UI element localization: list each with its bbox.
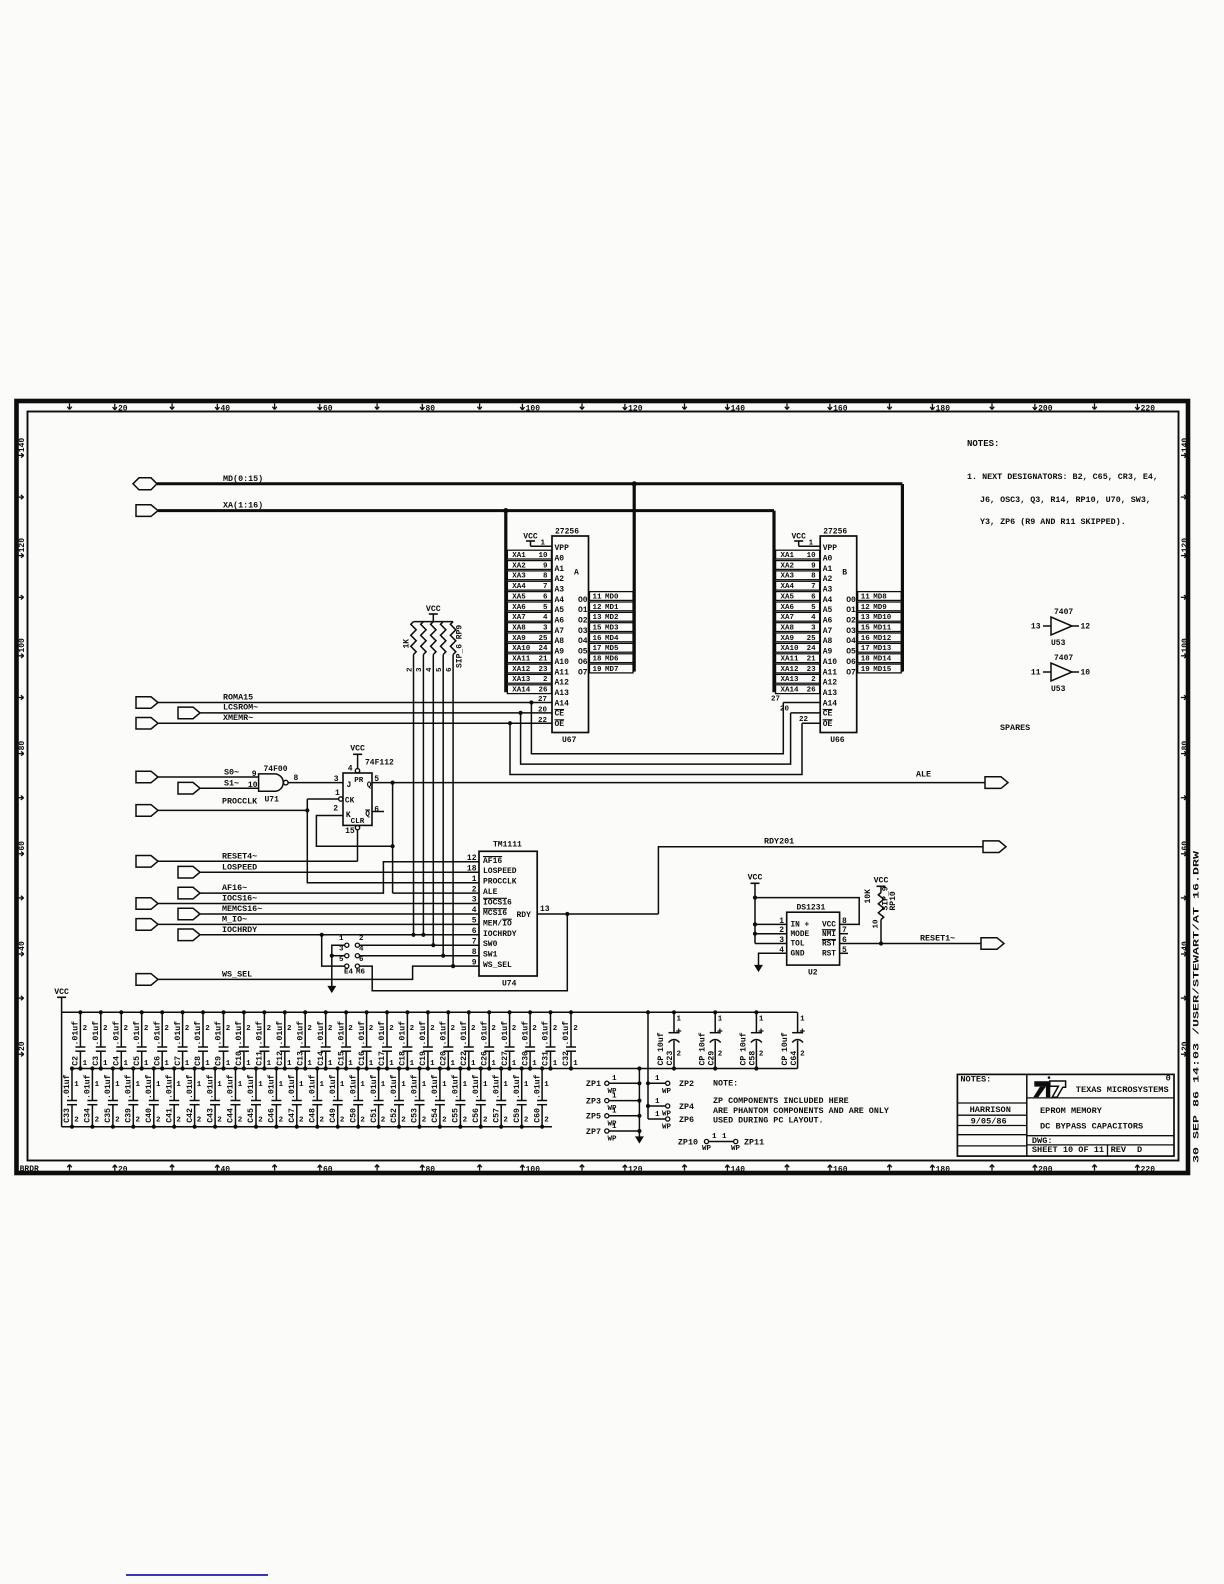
svg-text:6: 6 (472, 927, 477, 936)
svg-text:TEXAS MICROSYSTEMS: TEXAS MICROSYSTEMS (1076, 1085, 1169, 1095)
svg-text:A11: A11 (555, 668, 570, 677)
svg-text:13: 13 (593, 614, 603, 622)
svg-text:.01uf: .01uf (357, 1021, 367, 1046)
svg-text:O2: O2 (846, 617, 856, 626)
svg-text:60: 60 (1181, 841, 1190, 851)
svg-text:ZP11: ZP11 (744, 1137, 764, 1147)
svg-text:.01uf: .01uf (348, 1074, 358, 1099)
svg-text:MD(0:15): MD(0:15) (223, 474, 263, 484)
svg-text:Y3, ZP6 (R9 AND R11 SKIPPED).: Y3, ZP6 (R9 AND R11 SKIPPED). (980, 517, 1126, 527)
svg-text:VCC: VCC (748, 874, 763, 883)
svg-text:XA5: XA5 (512, 593, 526, 601)
svg-text:IOCS16~: IOCS16~ (222, 894, 257, 904)
svg-text:.01uf: .01uf (287, 1074, 297, 1099)
svg-text:1: 1 (483, 1081, 488, 1089)
svg-text:80: 80 (18, 741, 27, 751)
svg-text:1: 1 (279, 1081, 284, 1089)
svg-text:USED DURING PC LAYOUT.: USED DURING PC LAYOUT. (713, 1116, 824, 1126)
svg-text:CP: CP (698, 1056, 707, 1066)
svg-text:.01uf: .01uf (328, 1074, 338, 1099)
svg-text:2: 2 (359, 935, 364, 943)
svg-text:ALE: ALE (483, 888, 498, 897)
svg-text:1: 1 (573, 1060, 578, 1068)
svg-text:MEMCS16~: MEMCS16~ (222, 904, 262, 914)
svg-text:5: 5 (543, 604, 548, 612)
svg-text:LOSPEED: LOSPEED (222, 862, 257, 872)
svg-text:80: 80 (1181, 741, 1190, 751)
svg-text:1: 1 (540, 540, 545, 548)
svg-text:7: 7 (543, 583, 548, 591)
svg-text:A8: A8 (823, 637, 833, 646)
svg-text:1: 1 (430, 1060, 435, 1068)
svg-text:C22: C22 (460, 1051, 469, 1066)
svg-text:13: 13 (540, 905, 550, 914)
svg-text:2: 2 (401, 1117, 406, 1125)
svg-text:.01uf: .01uf (520, 1021, 530, 1046)
svg-text:1: 1 (136, 1081, 141, 1089)
svg-text:1: 1 (124, 1060, 129, 1068)
svg-text:C64: C64 (790, 1051, 799, 1066)
svg-text:180: 180 (936, 1165, 951, 1174)
svg-text:2: 2 (503, 1117, 508, 1125)
svg-text:O1: O1 (846, 606, 856, 615)
svg-text:XA11: XA11 (512, 656, 531, 664)
svg-text:MD12: MD12 (873, 635, 892, 643)
svg-text:2: 2 (512, 1025, 517, 1033)
svg-text:ARE PHANTOM COMPONENTS AND ARE: ARE PHANTOM COMPONENTS AND ARE ONLY (713, 1106, 890, 1116)
svg-text:A3: A3 (555, 586, 565, 595)
svg-text:XA14: XA14 (512, 687, 531, 695)
svg-text:A12: A12 (555, 679, 570, 688)
svg-text:O7: O7 (846, 668, 856, 677)
svg-text:J: J (347, 781, 352, 790)
svg-text:9: 9 (472, 958, 477, 967)
svg-text:120: 120 (628, 1165, 643, 1174)
svg-text:1: 1 (335, 789, 340, 798)
svg-text:.01uf: .01uf (500, 1021, 510, 1046)
svg-text:1: 1 (197, 1081, 202, 1089)
svg-text:LOSPEED: LOSPEED (483, 867, 517, 876)
svg-text:4: 4 (472, 906, 477, 915)
svg-text:.01uf: .01uf (173, 1021, 183, 1046)
svg-text:1: 1 (369, 1060, 374, 1068)
svg-text:C57: C57 (492, 1108, 501, 1123)
svg-text:O5: O5 (578, 648, 588, 657)
svg-text:XA5: XA5 (781, 593, 795, 601)
svg-text:1: 1 (238, 1081, 243, 1089)
svg-text:WS_SEL: WS_SEL (483, 961, 512, 970)
svg-text:140: 140 (731, 1165, 746, 1174)
svg-text:.01uf: .01uf (103, 1074, 113, 1099)
svg-text:1: 1 (800, 1016, 805, 1024)
svg-text:4: 4 (348, 765, 353, 774)
svg-text:C19: C19 (419, 1051, 428, 1066)
svg-text:2: 2 (451, 1025, 456, 1033)
svg-text:1: 1 (74, 1081, 79, 1089)
svg-text:140: 140 (731, 404, 746, 413)
svg-text:A: A (574, 569, 579, 578)
svg-text:23: 23 (807, 666, 817, 674)
svg-text:1: 1 (463, 1081, 468, 1089)
svg-text:RDY: RDY (517, 911, 532, 920)
svg-text:.01uf: .01uf (205, 1074, 215, 1099)
svg-text:15: 15 (861, 625, 871, 633)
svg-text:OE: OE (555, 720, 565, 729)
svg-text:C42: C42 (186, 1108, 195, 1123)
svg-text:20: 20 (1181, 1041, 1190, 1051)
svg-text:RESET4~: RESET4~ (222, 852, 257, 862)
svg-text:6: 6 (811, 593, 816, 601)
svg-text:1: 1 (410, 1060, 415, 1068)
svg-text:U53: U53 (1051, 639, 1066, 648)
svg-text:12: 12 (467, 854, 477, 863)
svg-text:.01uf: .01uf (471, 1074, 481, 1099)
svg-text:A12: A12 (823, 679, 838, 688)
svg-text:2: 2 (279, 1117, 284, 1125)
svg-text:C3: C3 (92, 1056, 101, 1066)
svg-text:12: 12 (593, 604, 603, 612)
svg-text:22: 22 (799, 716, 809, 724)
svg-text:12: 12 (861, 604, 871, 612)
svg-text:180: 180 (936, 404, 951, 413)
svg-text:2: 2 (258, 1117, 263, 1125)
svg-text:.01uf: .01uf (152, 1021, 162, 1046)
svg-text:C18: C18 (399, 1051, 408, 1066)
svg-text:100: 100 (18, 638, 27, 653)
svg-text:C5: C5 (133, 1056, 142, 1066)
svg-text:13: 13 (861, 614, 871, 622)
svg-text:C35: C35 (104, 1108, 113, 1123)
svg-text:1: 1 (422, 1081, 427, 1089)
svg-text:.01uf: .01uf (226, 1074, 236, 1099)
svg-text:A13: A13 (555, 689, 570, 698)
svg-text:10uf: 10uf (656, 1032, 666, 1052)
svg-text:C15: C15 (337, 1051, 346, 1066)
svg-text:.01uf: .01uf (377, 1021, 387, 1046)
svg-text:NOTES:: NOTES: (967, 439, 999, 449)
svg-text:ALE: ALE (916, 770, 931, 780)
svg-text:C27: C27 (501, 1051, 510, 1066)
svg-text:25: 25 (807, 635, 817, 643)
svg-text:C17: C17 (378, 1051, 387, 1066)
svg-text:U71: U71 (265, 796, 280, 805)
svg-text:2: 2 (360, 1117, 365, 1125)
svg-text:U2: U2 (808, 969, 818, 978)
svg-text:1: 1 (246, 1060, 251, 1068)
svg-text:1: 1 (809, 540, 814, 548)
svg-text:1: 1 (307, 1060, 312, 1068)
svg-text:15: 15 (345, 827, 355, 836)
svg-text:2: 2 (759, 1051, 764, 1059)
svg-text:O3: O3 (578, 627, 588, 636)
svg-text:3: 3 (339, 945, 344, 953)
svg-text:.01uf: .01uf (185, 1074, 195, 1099)
svg-text:DC BYPASS CAPACITORS: DC BYPASS CAPACITORS (1040, 1122, 1143, 1132)
svg-text:C45: C45 (247, 1108, 256, 1123)
svg-text:2: 2 (544, 1117, 549, 1125)
svg-text:.01uf: .01uf (267, 1074, 277, 1099)
svg-text:3: 3 (811, 625, 816, 633)
svg-text:7: 7 (472, 937, 477, 946)
svg-text:HARRISON: HARRISON (970, 1105, 1011, 1115)
svg-text:U74: U74 (502, 980, 517, 989)
svg-text:XA6: XA6 (512, 604, 526, 612)
svg-text:WP: WP (662, 1088, 672, 1096)
svg-text:MD6: MD6 (605, 656, 619, 664)
svg-text:A0: A0 (823, 554, 833, 563)
svg-text:1: 1 (83, 1060, 88, 1068)
svg-text:3: 3 (543, 625, 548, 633)
svg-text:2: 2 (677, 1051, 682, 1059)
svg-text:C56: C56 (472, 1108, 481, 1123)
svg-text:18: 18 (593, 656, 603, 664)
svg-text:6: 6 (359, 956, 364, 964)
svg-text:.01uf: .01uf (491, 1074, 501, 1099)
svg-text:1: 1 (185, 1060, 190, 1068)
svg-text:2: 2 (197, 1117, 202, 1125)
svg-text:A10: A10 (823, 658, 838, 667)
svg-text:2: 2 (144, 1025, 149, 1033)
svg-text:C51: C51 (370, 1108, 379, 1123)
svg-text:WP: WP (731, 1145, 741, 1153)
svg-text:2: 2 (369, 1025, 374, 1033)
svg-text:C8: C8 (194, 1056, 203, 1066)
svg-text:.01uf: .01uf (246, 1074, 256, 1099)
svg-text:WP: WP (702, 1145, 712, 1153)
svg-text:VCC: VCC (822, 922, 836, 930)
svg-text:30 SEP 86 14:03 /USER/STEWART/: 30 SEP 86 14:03 /USER/STEWART/AT 16.DRW (1193, 851, 1202, 1163)
svg-text:27256: 27256 (823, 528, 847, 537)
svg-text:SIP_6 RP9: SIP_6 RP9 (456, 625, 465, 668)
svg-text:1K: 1K (403, 639, 412, 649)
svg-text:C60: C60 (533, 1108, 542, 1123)
svg-text:100: 100 (526, 1165, 541, 1174)
svg-text:.01uf: .01uf (451, 1074, 461, 1099)
svg-text:2: 2 (217, 1117, 222, 1125)
svg-text:2: 2 (83, 1025, 88, 1033)
svg-text:A2: A2 (555, 575, 565, 584)
svg-text:ZP2: ZP2 (679, 1079, 694, 1089)
svg-text:10K: 10K (864, 889, 873, 904)
svg-text:CP: CP (740, 1056, 749, 1066)
svg-text:C40: C40 (145, 1108, 154, 1123)
svg-text:1: 1 (503, 1081, 508, 1089)
svg-text:C41: C41 (165, 1108, 174, 1123)
svg-text:5: 5 (811, 604, 816, 612)
svg-text:1. NEXT DESIGNATORS: B2, C65,: 1. NEXT DESIGNATORS: B2, C65, CR3, E4, (967, 472, 1158, 482)
svg-text:ROMA15: ROMA15 (223, 692, 253, 702)
svg-text:RST: RST (822, 951, 836, 959)
svg-text:1: 1 (524, 1081, 529, 1089)
svg-text:A6: A6 (555, 617, 565, 626)
svg-text:A2: A2 (823, 575, 833, 584)
svg-text:1: 1 (299, 1081, 304, 1089)
svg-text:C50: C50 (349, 1108, 358, 1123)
svg-text:C6: C6 (153, 1056, 162, 1066)
svg-text:C59: C59 (513, 1108, 522, 1123)
svg-text:.01uf: .01uf (193, 1021, 203, 1046)
svg-text:2: 2 (246, 1025, 251, 1033)
svg-text:C13: C13 (296, 1051, 305, 1066)
svg-text:1: 1 (532, 1060, 537, 1068)
svg-text:.01uf: .01uf (83, 1074, 93, 1099)
svg-text:A9: A9 (555, 648, 565, 657)
svg-text:2: 2 (176, 1117, 181, 1125)
svg-text:XMEMR~: XMEMR~ (223, 713, 253, 723)
svg-text:1: 1 (712, 1133, 717, 1141)
svg-text:VPP: VPP (555, 544, 570, 553)
svg-text:XA8: XA8 (781, 625, 795, 633)
svg-text:5: 5 (472, 917, 477, 926)
svg-text:.01uf: .01uf (144, 1074, 154, 1099)
svg-text:1: 1 (156, 1081, 161, 1089)
svg-text:8: 8 (543, 573, 548, 581)
svg-text:2: 2 (524, 1117, 529, 1125)
svg-text:60: 60 (18, 841, 27, 851)
svg-text:MD7: MD7 (605, 666, 619, 674)
svg-text:C47: C47 (288, 1108, 297, 1123)
svg-text:A0: A0 (555, 554, 565, 563)
svg-text:C10: C10 (235, 1051, 244, 1066)
svg-text:1: 1 (320, 1081, 325, 1089)
svg-text:1: 1 (258, 1081, 263, 1089)
svg-text:9: 9 (811, 562, 816, 570)
svg-text:11: 11 (1031, 669, 1041, 678)
svg-text:120: 120 (1181, 538, 1190, 553)
svg-text:1: 1 (287, 1060, 292, 1068)
svg-text:XA10: XA10 (512, 645, 531, 653)
svg-text:MD1: MD1 (605, 604, 619, 612)
svg-text:2: 2 (299, 1117, 304, 1125)
svg-text:2: 2 (348, 1025, 353, 1033)
svg-text:6: 6 (543, 593, 548, 601)
svg-text:CK: CK (345, 798, 355, 806)
svg-text:.01uf: .01uf (214, 1021, 224, 1046)
svg-text:2: 2 (205, 1025, 210, 1033)
svg-text:2: 2 (74, 1117, 79, 1125)
svg-text:B: B (842, 569, 847, 578)
svg-text:M_IO~: M_IO~ (222, 915, 247, 925)
svg-text:Q: Q (365, 811, 370, 819)
svg-text:MEM/IO: MEM/IO (483, 919, 512, 928)
svg-text:A11: A11 (823, 668, 838, 677)
svg-text:S1~: S1~ (224, 779, 239, 789)
svg-text:RDY201: RDY201 (764, 836, 794, 846)
svg-text:4: 4 (543, 614, 548, 622)
svg-text:1: 1 (339, 935, 344, 943)
svg-text:U53: U53 (1051, 685, 1066, 694)
svg-text:1: 1 (226, 1060, 231, 1068)
svg-text:7407: 7407 (1054, 608, 1073, 617)
svg-text:40: 40 (18, 941, 27, 951)
svg-text:1: 1 (360, 1081, 365, 1089)
svg-text:.01uf: .01uf (398, 1021, 408, 1046)
svg-text:2: 2 (333, 805, 338, 814)
svg-text:.01uf: .01uf (71, 1021, 81, 1046)
svg-text:WP: WP (662, 1124, 672, 1132)
svg-text:2: 2 (136, 1117, 141, 1125)
svg-text:OE: OE (823, 720, 833, 729)
svg-text:1: 1 (176, 1081, 181, 1089)
svg-text:MD13: MD13 (873, 645, 892, 653)
svg-text:19: 19 (593, 666, 603, 674)
svg-text:1: 1 (451, 1060, 456, 1068)
svg-text:A1: A1 (823, 565, 833, 574)
svg-text:ZP COMPONENTS INCLUDED HERE: ZP COMPONENTS INCLUDED HERE (713, 1096, 849, 1106)
svg-text:C20: C20 (440, 1051, 449, 1066)
svg-text:C54: C54 (431, 1108, 440, 1123)
svg-text:1: 1 (655, 1111, 660, 1119)
svg-text:1: 1 (389, 1060, 394, 1068)
svg-text:MD8: MD8 (873, 593, 887, 601)
svg-text:XA14: XA14 (781, 687, 800, 695)
svg-text:19: 19 (861, 666, 871, 674)
svg-text:O4: O4 (578, 637, 588, 646)
svg-text:PR: PR (354, 777, 364, 785)
svg-text:120: 120 (628, 404, 643, 413)
svg-text:2: 2 (340, 1117, 345, 1125)
svg-text:2: 2 (553, 1025, 558, 1033)
svg-text:10uf: 10uf (697, 1032, 707, 1052)
svg-text:10: 10 (807, 552, 817, 560)
svg-text:C30: C30 (521, 1051, 530, 1066)
svg-text:2: 2 (483, 1117, 488, 1125)
svg-text:.01uf: .01uf (275, 1021, 285, 1046)
svg-text:18: 18 (861, 656, 871, 664)
svg-text:C44: C44 (227, 1108, 236, 1123)
svg-text:1: 1 (491, 1060, 496, 1068)
svg-text:1: 1 (722, 1133, 727, 1141)
svg-text:SW1: SW1 (483, 951, 498, 960)
svg-text:XA13: XA13 (781, 676, 800, 684)
svg-text:SPARES: SPARES (1000, 723, 1030, 733)
svg-text:2: 2 (103, 1025, 108, 1033)
svg-text:2: 2 (267, 1025, 272, 1033)
svg-text:NOTES:: NOTES: (960, 1075, 991, 1085)
svg-text:.01uf: .01uf (541, 1021, 551, 1046)
svg-text:1: 1 (612, 1092, 617, 1100)
svg-text:XA12: XA12 (781, 666, 800, 674)
svg-text:VCC: VCC (54, 988, 69, 997)
svg-text:24: 24 (538, 645, 548, 653)
svg-text:.01uf: .01uf (164, 1074, 174, 1099)
svg-text:C49: C49 (329, 1108, 338, 1123)
svg-text:1: 1 (340, 1081, 345, 1089)
svg-text:XA9: XA9 (512, 635, 526, 643)
svg-text:40: 40 (220, 1165, 230, 1174)
svg-text:.01uf: .01uf (132, 1021, 142, 1046)
svg-text:A14: A14 (823, 699, 838, 708)
svg-text:C39: C39 (125, 1108, 134, 1123)
svg-text:1: 1 (381, 1081, 386, 1089)
svg-text:1: 1 (553, 1060, 558, 1068)
svg-text:E4: E4 (344, 969, 354, 977)
svg-text:MCS16: MCS16 (483, 909, 507, 918)
svg-text:XA13: XA13 (512, 676, 531, 684)
svg-text:XA2: XA2 (781, 562, 795, 570)
svg-text:220: 220 (1141, 404, 1156, 413)
svg-text:2: 2 (124, 1025, 129, 1033)
svg-text:VCC: VCC (350, 745, 365, 754)
svg-text:AF16~: AF16~ (222, 883, 247, 893)
svg-text:A9: A9 (823, 648, 833, 657)
svg-text:2: 2 (185, 1025, 190, 1033)
svg-text:.01uf: .01uf (512, 1074, 522, 1099)
svg-text:XA(1:16): XA(1:16) (223, 501, 263, 511)
svg-text:A13: A13 (823, 689, 838, 698)
svg-text:20: 20 (118, 404, 128, 413)
svg-text:21: 21 (807, 656, 817, 664)
